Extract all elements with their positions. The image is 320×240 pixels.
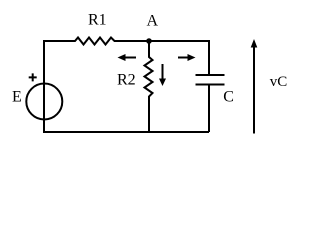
svg-text:A: A xyxy=(147,13,159,30)
svg-text:E: E xyxy=(12,88,22,105)
svg-text:R1: R1 xyxy=(88,12,107,29)
svg-text:vC: vC xyxy=(270,74,288,90)
svg-text:C: C xyxy=(223,88,234,105)
svg-text:R2: R2 xyxy=(117,72,136,89)
